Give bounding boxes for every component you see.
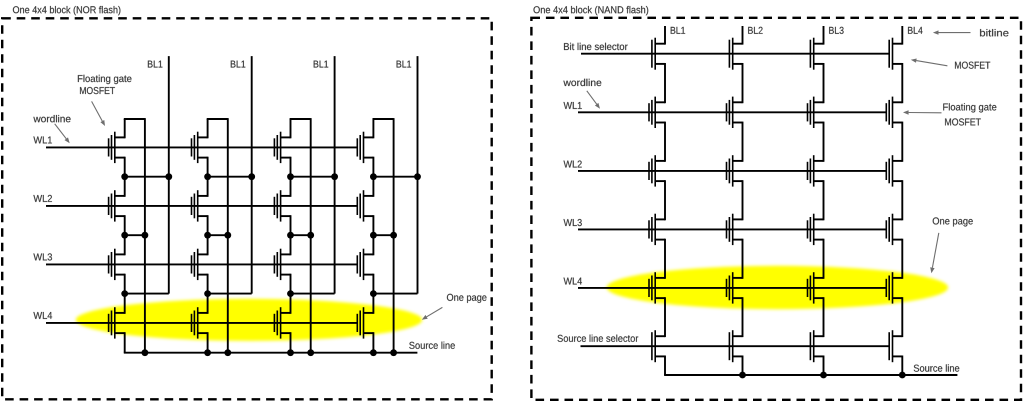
wire bitline contact row (lower) col3 (NOR) — [291, 293, 335, 295]
junction dot col3 row1 left (NOR) — [287, 173, 294, 180]
wire source lead NAND col3 row5 — [814, 297, 824, 299]
wire chain segment below row2 col2 (NAND) — [742, 122, 744, 162]
wire bitline column 1 (NOR) — [168, 56, 170, 294]
junction dot source-line col4 bus (NOR) — [390, 349, 397, 356]
wire source lead NOR col4 WL1 — [364, 157, 374, 177]
wire chain segment below row3 col4 (NAND) — [901, 180, 903, 220]
floating-gate MOSFET cell NOR col3 WL1 — [274, 132, 280, 163]
wire source lead NAND col4 row1 — [893, 63, 903, 65]
junction dot col4 row2 left (NOR) — [370, 232, 377, 239]
wire mid junction row col1 (NOR) — [125, 234, 145, 236]
floating-gate MOSFET cell NAND col4 WL1 — [886, 97, 892, 128]
junction dot col3 row2 left (NOR) — [287, 232, 294, 239]
NOR title — [13, 6, 121, 15]
label Source line (NAND) — [914, 364, 960, 371]
wire wordline WL4 (NAND) — [578, 287, 887, 289]
label One page (NOR) — [447, 294, 487, 303]
junction dot col2 row1 on bitline (NOR) — [248, 173, 255, 180]
floating-gate MOSFET cell NOR col2 WL2 — [192, 190, 198, 221]
junction dot source line col3 (NAND) — [820, 372, 827, 379]
wire bitline contact row (upper) col2 (NOR) — [208, 176, 252, 178]
wire top jog of column 4 (NOR) — [373, 118, 394, 120]
wire chain segment below row6 col2 (NAND) — [742, 356, 744, 376]
floating-gate MOSFET cell NOR col2 WL4 — [192, 307, 198, 338]
junction dot source-line col2 lead (NOR) — [204, 349, 211, 356]
wire drain lead NOR col2 WL2 — [198, 177, 208, 197]
wire source lead NAND col1 row6 — [655, 355, 665, 357]
wire source lead NAND col1 row2 — [655, 122, 665, 124]
wire drain lead NAND col3 row3 — [814, 160, 824, 162]
label BL1 column 3 (NOR) — [314, 61, 329, 68]
wire source lead NAND col2 row1 — [733, 63, 743, 65]
wire chain segment below row1 col1 (NAND) — [664, 63, 666, 103]
wire source lead NOR col3 WL4 — [281, 332, 291, 353]
wire chain segment below row6 col1 (NAND) — [664, 356, 666, 376]
floating-gate MOSFET cell NOR col4 WL3 — [357, 249, 363, 280]
wire source lead NOR col2 WL1 — [198, 157, 208, 177]
wire bitline contact row (upper) col1 (NOR) — [125, 176, 169, 178]
junction dot col3 row3 (NOR) — [287, 290, 294, 297]
label BL3 — [829, 27, 843, 34]
junction dot col4 row3 (NOR) — [370, 290, 377, 297]
wire bitline stub BL4 (NAND) — [901, 26, 903, 45]
wire source lead NAND col4 row2 — [893, 122, 903, 124]
wire drain lead NAND col1 row2 — [655, 101, 665, 103]
wire wordline WL1 (NAND) — [578, 111, 887, 113]
wire chain segment below row2 col1 (NAND) — [664, 122, 666, 162]
NAND block dashed border — [531, 18, 1021, 400]
wire source lead NAND col1 row4 — [655, 239, 665, 241]
wire drain lead NAND col4 row1 — [893, 43, 903, 45]
label bitline (NAND) — [980, 29, 1009, 36]
junction dot source line col4 (NAND) — [899, 372, 906, 379]
wire source lead NOR col2 WL3 — [198, 274, 208, 294]
wire chain segment below row6 col4 (NAND) — [901, 356, 903, 376]
label BL2 — [748, 27, 762, 34]
arrow to bitline BL4 (NAND) — [939, 32, 971, 34]
wire chain segment below row6 col3 (NAND) — [823, 356, 825, 376]
wire source lead NOR col2 WL4 — [198, 332, 208, 353]
junction dot col2 row2 on bus (NOR) — [224, 232, 231, 239]
wire drain lead NOR col4 WL2 — [364, 177, 374, 197]
wire wordline WL3 (NAND) — [578, 228, 887, 230]
wire drain lead NOR col3 WL1 — [281, 119, 291, 138]
wire bitline contact row (upper) col3 (NOR) — [291, 176, 335, 178]
floating-gate MOSFET cell NAND col2 WL4 — [727, 272, 733, 303]
wire drain lead NAND col2 row3 — [733, 160, 743, 162]
wire source lead NAND col3 row4 — [814, 239, 824, 241]
junction dot col4 row1 on bitline (NOR) — [414, 173, 421, 180]
wire source lead NAND col1 row5 — [655, 297, 665, 299]
wire drain-bus of column 2 (NOR) — [227, 118, 229, 353]
label WL4 (NOR) — [33, 312, 52, 319]
wire bitline column 4 (NOR) — [417, 56, 419, 294]
wire source lead NAND col2 row4 — [733, 239, 743, 241]
wire drain lead NAND col3 row4 — [814, 218, 824, 220]
junction dot source-line col2 bus (NOR) — [224, 349, 231, 356]
arrow to one page ellipse (NAND) — [932, 233, 938, 268]
label wordline (NOR) — [33, 115, 70, 122]
wire chain segment below row3 col1 (NAND) — [664, 180, 666, 220]
junction dot source-line col3 bus (NOR) — [307, 349, 314, 356]
wire source lead NOR col1 WL2 — [115, 215, 125, 235]
wire source lead NAND col2 row3 — [733, 180, 743, 182]
wire drain lead NOR col3 WL3 — [281, 235, 291, 255]
wire drain lead NOR col4 WL3 — [364, 235, 374, 255]
wire drain lead NAND col3 row2 — [814, 101, 824, 103]
wire source lead NAND col3 row1 — [814, 63, 824, 65]
floating-gate MOSFET cell NOR col4 WL1 — [357, 132, 363, 163]
wire source lead NOR col3 WL3 — [281, 274, 291, 294]
wire chain segment below row5 col4 (NAND) — [901, 297, 903, 337]
floating-gate MOSFET cell NOR col1 WL3 — [109, 249, 115, 280]
wire source lead NOR col2 WL2 — [198, 215, 208, 235]
arrow to floating gate MOSFET (NAND) — [909, 112, 942, 114]
wire drain lead NAND col1 row3 — [655, 160, 665, 162]
wire bitline column 3 (NOR) — [334, 56, 336, 294]
wire drain lead NAND col4 row5 — [893, 277, 903, 279]
wire mid junction row col2 (NOR) — [208, 234, 228, 236]
wire chain segment below row3 col2 (NAND) — [742, 180, 744, 220]
wire chain segment below row2 col3 (NAND) — [823, 122, 825, 162]
floating-gate MOSFET cell NAND col4 WL3 — [886, 214, 892, 245]
yellow ellipse One page highlight (NAND) — [607, 266, 948, 309]
wire bitline column 2 (NOR) — [251, 56, 253, 294]
wire drain-bus of column 1 (NOR) — [144, 118, 146, 353]
wire drain lead NOR col1 WL1 — [115, 119, 125, 138]
wire drain lead NOR col4 WL1 — [364, 119, 374, 138]
wire drain lead NOR col3 WL4 — [281, 294, 291, 314]
wire drain lead NOR col1 WL3 — [115, 235, 125, 255]
wire source lead NOR col4 WL4 — [364, 332, 374, 353]
wire chain segment below row3 col3 (NAND) — [823, 180, 825, 220]
floating-gate MOSFET cell NOR col4 WL2 — [357, 190, 363, 221]
junction dot col3 row1 on bitline (NOR) — [331, 173, 338, 180]
label WL1 (NOR) — [33, 137, 52, 144]
floating-gate MOSFET cell NAND col3 WL3 — [808, 214, 814, 245]
floating-gate MOSFET cell NOR col3 WL3 — [274, 249, 280, 280]
wire wordline WL2 (NAND) — [578, 170, 887, 172]
junction dot col1 row2 on bus (NOR) — [142, 232, 149, 239]
wire source lead NAND col4 row6 — [893, 355, 903, 357]
junction dot col1 row2 left (NOR) — [121, 232, 128, 239]
wire drain lead NAND col3 row5 — [814, 277, 824, 279]
wire chain segment below row5 col2 (NAND) — [742, 297, 744, 337]
wire source lead NOR col1 WL3 — [115, 274, 125, 294]
wire drain lead NAND col1 row6 — [655, 335, 665, 337]
wire drain lead NAND col4 row3 — [893, 160, 903, 162]
label WL3 (NAND) — [564, 219, 582, 226]
label WL4 (NAND) — [564, 278, 582, 285]
NAND title — [534, 6, 649, 15]
label One page (NAND) — [933, 217, 973, 226]
yellow ellipse One page highlight (NOR) — [76, 299, 422, 341]
selector MOSFET NAND col1 source line selector — [652, 330, 655, 362]
wire chain segment below row4 col2 (NAND) — [742, 239, 744, 279]
selector MOSFET NAND col3 source line selector — [810, 330, 813, 362]
junction dot col2 row2 left (NOR) — [204, 232, 211, 239]
selector MOSFET NAND col2 source line selector — [729, 330, 732, 362]
wire drain lead NAND col2 row1 — [733, 43, 743, 45]
wire drain lead NOR col1 WL2 — [115, 177, 125, 197]
wire drain lead NAND col1 row1 — [655, 43, 665, 45]
label wordline (NAND) — [563, 79, 601, 86]
floating-gate MOSFET cell NAND col3 WL1 — [808, 97, 814, 128]
label BL1 column 2 (NOR) — [231, 61, 246, 68]
wire chain segment below row5 col3 (NAND) — [823, 297, 825, 337]
wire drain lead NOR col1 WL4 — [115, 294, 125, 314]
label Floating gate MOSFET (NOR) — [78, 75, 132, 94]
wire drain-bus of column 3 (NOR) — [310, 118, 312, 353]
wire source lead NAND col4 row4 — [893, 239, 903, 241]
selector MOSFET NAND col1 bit line selector — [652, 38, 655, 70]
wire source lead NOR col1 WL4 — [115, 332, 125, 353]
junction dot source-line col3 lead (NOR) — [287, 349, 294, 356]
junction dot source line col2 (NAND) — [739, 372, 746, 379]
wire source lead NAND col1 row1 — [655, 63, 665, 65]
wire drain lead NAND col4 row6 — [893, 335, 903, 337]
floating-gate MOSFET cell NOR col2 WL1 — [192, 132, 198, 163]
junction dot col4 row1 left (NOR) — [370, 173, 377, 180]
selector MOSFET NAND col2 bit line selector — [729, 38, 732, 70]
label BL4 — [908, 27, 923, 34]
wire chain segment below row1 col3 (NAND) — [823, 63, 825, 103]
wire source lead NAND col3 row6 — [814, 355, 824, 357]
floating-gate MOSFET cell NAND col1 WL4 — [649, 272, 655, 303]
junction dot col1 row3 (NOR) — [121, 290, 128, 297]
wire drain lead NOR col4 WL4 — [364, 294, 374, 314]
wire source lead NOR col3 WL1 — [281, 157, 291, 177]
wire source lead NOR col3 WL2 — [281, 215, 291, 235]
label WL2 (NAND) — [564, 161, 582, 168]
label BL1 column 1 (NOR) — [148, 61, 163, 68]
floating-gate MOSFET cell NAND col4 WL4 — [886, 272, 892, 303]
arrow to selector MOSFET (NAND) — [916, 61, 947, 66]
floating-gate MOSFET cell NAND col1 WL1 — [649, 97, 655, 128]
wire bitline contact row (lower) col2 (NOR) — [208, 293, 252, 295]
floating-gate MOSFET cell NAND col2 WL1 — [727, 97, 733, 128]
junction dot col3 row2 on bus (NOR) — [307, 232, 314, 239]
wire drain-bus of column 4 (NOR) — [393, 118, 395, 353]
floating-gate MOSFET cell NOR col2 WL3 — [192, 249, 198, 280]
wire drain lead NAND col3 row6 — [814, 335, 824, 337]
wire bit line selector row (NAND) — [581, 53, 889, 55]
wire source lead NAND col4 row3 — [893, 180, 903, 182]
wire bitline contact row (lower) col4 (NOR) — [373, 293, 417, 295]
label WL1 (NAND) — [564, 102, 582, 109]
NOR block dashed border — [2, 18, 492, 399]
wire chain segment below row4 col3 (NAND) — [823, 239, 825, 279]
floating-gate MOSFET cell NOR col4 WL4 — [357, 307, 363, 338]
junction dot col1 row1 on bitline (NOR) — [165, 173, 172, 180]
wire bitline contact row (upper) col4 (NOR) — [373, 176, 417, 178]
wire source line (NAND) — [664, 374, 957, 376]
junction dot col2 row3 (NOR) — [204, 290, 211, 297]
junction dot col1 row1 left (NOR) — [121, 173, 128, 180]
arrow to one page ellipse (NOR) — [427, 307, 443, 316]
wire wordline WL3 (NOR) — [46, 263, 357, 265]
wire top jog of column 3 (NOR) — [290, 118, 311, 120]
wire drain lead NOR col2 WL3 — [198, 235, 208, 255]
wire chain segment below row1 col4 (NAND) — [901, 63, 903, 103]
selector MOSFET NAND col4 bit line selector — [889, 38, 892, 70]
wire chain segment below row4 col4 (NAND) — [901, 239, 903, 279]
wire bitline stub BL3 (NAND) — [823, 26, 825, 45]
floating-gate MOSFET cell NAND col1 WL2 — [649, 155, 655, 186]
label WL2 (NOR) — [33, 195, 52, 202]
wire wordline WL4 (NOR) — [46, 322, 357, 324]
wire drain lead NAND col2 row5 — [733, 277, 743, 279]
wire bitline contact row (lower) col1 (NOR) — [125, 293, 169, 295]
wire chain segment below row4 col1 (NAND) — [664, 239, 666, 279]
wire top jog of column 1 (NOR) — [124, 118, 145, 120]
arrow to wordline WL1 (NOR) — [55, 124, 67, 139]
arrow to floating gate MOSFET (NOR) — [92, 101, 103, 121]
wire drain lead NOR col2 WL4 — [198, 294, 208, 314]
wire source lead NAND col2 row2 — [733, 122, 743, 124]
label Floating gate MOSFET (NAND) — [943, 103, 996, 125]
wire drain lead NAND col1 row4 — [655, 218, 665, 220]
label Source line (NOR) — [409, 342, 455, 349]
arrow to wordline WL1 (NAND) — [587, 91, 597, 104]
floating-gate MOSFET cell NAND col1 WL3 — [649, 214, 655, 245]
floating-gate MOSFET cell NOR col1 WL1 — [109, 132, 115, 163]
wire source lead NOR col4 WL2 — [364, 215, 374, 235]
wire drain lead NOR col3 WL2 — [281, 177, 291, 197]
wire drain lead NAND col2 row2 — [733, 101, 743, 103]
selector MOSFET NAND col3 bit line selector — [810, 38, 813, 70]
wire source lead NAND col3 row3 — [814, 180, 824, 182]
wire source lead NOR col4 WL3 — [364, 274, 374, 294]
wire wordline WL1 (NOR) — [46, 146, 357, 148]
wire source lead NAND col3 row2 — [814, 122, 824, 124]
wire source lead NAND col2 row6 — [733, 355, 743, 357]
wire top jog of column 2 (NOR) — [207, 118, 228, 120]
wire mid junction row col4 (NOR) — [373, 234, 393, 236]
floating-gate MOSFET cell NAND col2 WL2 — [727, 155, 733, 186]
selector MOSFET NAND col4 source line selector — [889, 330, 892, 362]
floating-gate MOSFET cell NAND col4 WL2 — [886, 155, 892, 186]
junction dot source-line col4 lead (NOR) — [370, 349, 377, 356]
floating-gate MOSFET cell NAND col3 WL4 — [808, 272, 814, 303]
junction dot col2 row1 left (NOR) — [204, 173, 211, 180]
label BL1 — [671, 27, 685, 34]
junction dot source-line col1 bus (NOR) — [142, 349, 149, 356]
wire source lead NAND col2 row5 — [733, 297, 743, 299]
wire wordline WL2 (NOR) — [46, 205, 357, 207]
wire source line selector row (NAND) — [581, 345, 890, 347]
label BL1 column 4 (NOR) — [397, 61, 412, 68]
wire drain lead NAND col4 row2 — [893, 101, 903, 103]
wire source lead NAND col4 row5 — [893, 297, 903, 299]
junction dot col4 row2 on bus (NOR) — [390, 232, 397, 239]
wire drain lead NAND col3 row1 — [814, 43, 824, 45]
wire drain lead NAND col2 row6 — [733, 335, 743, 337]
wire bitline stub BL2 (NAND) — [742, 26, 744, 45]
wire chain segment below row5 col1 (NAND) — [664, 297, 666, 337]
wire source line (NOR) — [124, 352, 418, 354]
wire drain lead NAND col2 row4 — [733, 218, 743, 220]
wire drain lead NOR col2 WL1 — [198, 119, 208, 138]
wire drain lead NAND col4 row4 — [893, 218, 903, 220]
wire bitline stub BL1 (NAND) — [664, 26, 666, 45]
floating-gate MOSFET cell NOR col3 WL2 — [274, 190, 280, 221]
floating-gate MOSFET cell NOR col1 WL2 — [109, 190, 115, 221]
floating-gate MOSFET cell NAND col2 WL3 — [727, 214, 733, 245]
label WL3 (NOR) — [33, 253, 52, 260]
wire drain lead NAND col1 row5 — [655, 277, 665, 279]
label Source line selector — [558, 335, 639, 342]
wire mid junction row col3 (NOR) — [291, 234, 311, 236]
wire source lead NOR col1 WL1 — [115, 157, 125, 177]
floating-gate MOSFET cell NOR col1 WL4 — [109, 307, 115, 338]
label MOSFET (NAND selector) — [955, 62, 990, 69]
wire chain segment below row2 col4 (NAND) — [901, 122, 903, 162]
label Bit line selector — [564, 43, 628, 50]
floating-gate MOSFET cell NAND col3 WL2 — [808, 155, 814, 186]
floating-gate MOSFET cell NOR col3 WL4 — [274, 307, 280, 338]
wire chain segment below row1 col2 (NAND) — [742, 63, 744, 103]
wire source lead NAND col1 row3 — [655, 180, 665, 182]
